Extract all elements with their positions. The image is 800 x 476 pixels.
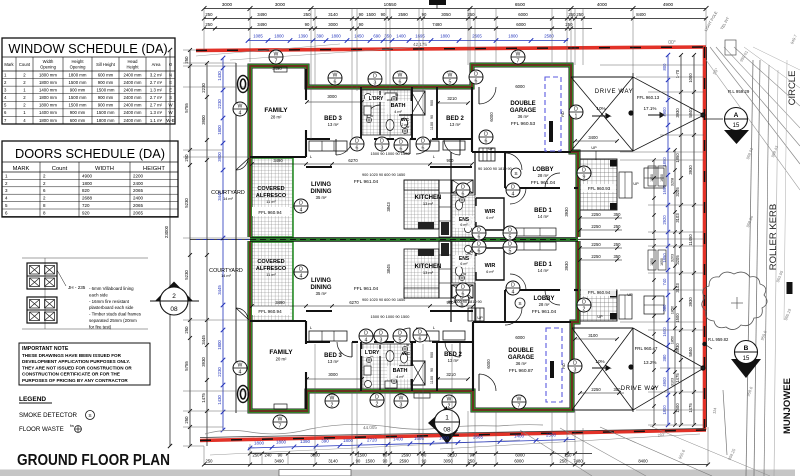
svg-text:W: W bbox=[516, 51, 521, 57]
left dim line third bbox=[201, 61, 209, 446]
bottom dim row A bbox=[248, 452, 592, 458]
room ENS unit1 bbox=[455, 216, 474, 228]
svg-text:W: W bbox=[238, 362, 243, 368]
tag porch unit2 bbox=[577, 298, 591, 312]
svg-text:L'DRY: L'DRY bbox=[369, 96, 384, 102]
room COVERED ALFRESCO unit2 bbox=[252, 306, 290, 315]
floor waste symbols unit1 bbox=[391, 96, 396, 101]
svg-text:- Timber studs dual frames: - Timber studs dual frames bbox=[89, 312, 142, 317]
left dim line second bbox=[184, 48, 192, 448]
svg-text:10%: 10% bbox=[595, 359, 604, 364]
ensuite unit1 tiles bbox=[452, 195, 475, 237]
svg-text:6: 6 bbox=[422, 145, 425, 151]
svg-text:6: 6 bbox=[399, 79, 402, 85]
courtyard gate unit2 bbox=[236, 308, 249, 320]
family north fitting unit1 bbox=[274, 67, 287, 72]
svg-text:2: 2 bbox=[583, 306, 586, 312]
svg-text:08: 08 bbox=[443, 427, 451, 434]
svg-text:20 m²: 20 m² bbox=[276, 357, 287, 362]
svg-text:1850: 1850 bbox=[650, 174, 654, 182]
svg-text:6000: 6000 bbox=[489, 112, 494, 122]
stairs unit1 lobby bbox=[479, 147, 495, 161]
svg-text:350: 350 bbox=[614, 254, 622, 259]
svg-text:2400 mm: 2400 mm bbox=[124, 72, 142, 77]
svg-text:90: 90 bbox=[470, 453, 475, 458]
svg-text:3: 3 bbox=[574, 367, 577, 373]
svg-text:D: D bbox=[574, 106, 578, 112]
svg-text:2580: 2580 bbox=[544, 34, 554, 39]
family south fitting unit2 bbox=[274, 404, 287, 409]
svg-text:10550: 10550 bbox=[384, 2, 397, 7]
svg-text:4: 4 bbox=[239, 110, 242, 116]
svg-text:W: W bbox=[238, 103, 243, 109]
party wall extension left bbox=[190, 239, 250, 241]
svg-text:1800 mm: 1800 mm bbox=[69, 72, 87, 77]
svg-text:2400: 2400 bbox=[133, 196, 144, 201]
linen cupboards corridor unit2 bbox=[309, 325, 439, 341]
svg-text:1800 mm: 1800 mm bbox=[39, 72, 57, 77]
svg-text:35 m²: 35 m² bbox=[316, 291, 327, 296]
svg-text:ALFRESCO: ALFRESCO bbox=[256, 266, 287, 272]
svg-text:6500: 6500 bbox=[515, 2, 526, 7]
door swing arcs unit1 bbox=[336, 139, 352, 155]
stairs unit2 lobby bbox=[468, 308, 484, 321]
svg-text:B: B bbox=[744, 345, 749, 352]
svg-text:7480: 7480 bbox=[432, 22, 442, 27]
svg-text:4 m²: 4 m² bbox=[396, 375, 404, 379]
svg-text:90: 90 bbox=[383, 453, 388, 458]
svg-text:2: 2 bbox=[172, 293, 176, 300]
kerb ramp black bar bbox=[787, 282, 793, 294]
svg-text:- 6mm Villaboard lining: - 6mm Villaboard lining bbox=[89, 286, 134, 291]
svg-text:FAMILY: FAMILY bbox=[264, 107, 288, 114]
svg-text:250: 250 bbox=[467, 12, 475, 17]
svg-text:9: 9 bbox=[583, 174, 586, 180]
svg-text:BATH: BATH bbox=[393, 368, 408, 374]
svg-text:36 m²: 36 m² bbox=[516, 361, 527, 366]
svg-text:2590: 2590 bbox=[398, 12, 408, 17]
robe bed1 unit2 bbox=[508, 242, 556, 250]
svg-text:Area: Area bbox=[152, 62, 162, 67]
svg-text:RD: RD bbox=[562, 363, 566, 369]
porch steps unit1 bbox=[619, 172, 632, 198]
svg-text:1400: 1400 bbox=[393, 437, 404, 442]
svg-text:6: 6 bbox=[478, 234, 481, 240]
svg-text:LIVING: LIVING bbox=[311, 182, 331, 188]
svg-text:1500 mm: 1500 mm bbox=[97, 110, 115, 115]
svg-text:1500 90 1000 90 1500: 1500 90 1000 90 1500 bbox=[371, 314, 411, 319]
svg-text:36 m²: 36 m² bbox=[518, 114, 529, 119]
svg-text:3140: 3140 bbox=[328, 459, 338, 464]
svg-text:250: 250 bbox=[614, 242, 622, 247]
svg-text:2200: 2200 bbox=[133, 173, 144, 178]
dim line bed2 unit1 bbox=[438, 102, 468, 104]
svg-text:2590: 2590 bbox=[399, 459, 409, 464]
svg-text:5230: 5230 bbox=[184, 270, 189, 280]
svg-text:E: E bbox=[169, 80, 172, 85]
dim porch unit1 bbox=[573, 135, 619, 143]
svg-text:6 m²: 6 m² bbox=[460, 223, 468, 227]
svg-text:6: 6 bbox=[462, 291, 465, 297]
svg-text:Height: Height bbox=[126, 65, 139, 70]
svg-text:3490: 3490 bbox=[274, 459, 284, 464]
svg-text:90 1600 90 1810 90: 90 1600 90 1810 90 bbox=[478, 167, 512, 171]
ensuite unit2 tiles bbox=[452, 241, 475, 283]
room DRY unit2 bbox=[361, 349, 383, 356]
svg-text:1800 mm: 1800 mm bbox=[97, 118, 115, 123]
porch unit1 tiles bbox=[580, 159, 617, 210]
svg-text:FFL 961.04: FFL 961.04 bbox=[531, 180, 556, 186]
svg-text:3208: 3208 bbox=[671, 178, 675, 186]
robe bed2 unit2 bbox=[443, 331, 465, 340]
svg-text:390: 390 bbox=[321, 439, 329, 444]
svg-text:90: 90 bbox=[430, 368, 434, 372]
svg-text:3: 3 bbox=[400, 402, 403, 408]
room BATH unit2 bbox=[387, 366, 414, 379]
svg-text:MUNJOWEE: MUNJOWEE bbox=[782, 378, 793, 434]
important note box bbox=[19, 343, 150, 385]
smoke detector unit2 bbox=[515, 298, 525, 308]
svg-text:900: 900 bbox=[430, 352, 434, 358]
svg-text:90: 90 bbox=[430, 115, 434, 119]
road diagonal lines bottom right bbox=[210, 426, 770, 476]
svg-text:350: 350 bbox=[614, 212, 622, 217]
svg-text:3930: 3930 bbox=[564, 207, 569, 217]
svg-text:D: D bbox=[418, 329, 422, 335]
svg-text:28 m²: 28 m² bbox=[539, 302, 550, 307]
svg-text:1400 mm: 1400 mm bbox=[39, 88, 57, 93]
svg-text:900 1020 90 600 90 1650: 900 1020 90 600 90 1650 bbox=[362, 173, 405, 177]
svg-text:250: 250 bbox=[614, 224, 622, 229]
svg-text:FFL 960.13: FFL 960.13 bbox=[637, 95, 660, 100]
exterior wall unit1 outline bbox=[250, 65, 578, 237]
svg-text:DOORS SCHEDULE (DA): DOORS SCHEDULE (DA) bbox=[15, 146, 165, 161]
svg-text:FFL 961.04: FFL 961.04 bbox=[532, 309, 557, 315]
svg-text:S: S bbox=[88, 413, 91, 419]
svg-text:CIRCLE: CIRCLE bbox=[787, 71, 798, 106]
svg-text:13 m²: 13 m² bbox=[448, 358, 459, 363]
site boundary red line bottom bbox=[200, 430, 706, 441]
svg-text:4: 4 bbox=[300, 273, 303, 279]
garage unit1 walls bbox=[472, 151, 571, 153]
svg-text:00°: 00° bbox=[668, 40, 676, 46]
svg-text:6000: 6000 bbox=[516, 22, 526, 27]
svg-text:2688: 2688 bbox=[82, 196, 93, 201]
svg-text:6000: 6000 bbox=[486, 359, 491, 369]
svg-text:1500 mm: 1500 mm bbox=[69, 103, 87, 108]
svg-text:FFL 961.04: FFL 961.04 bbox=[354, 179, 379, 185]
svg-text:Opening: Opening bbox=[40, 65, 57, 70]
svg-text:1650: 1650 bbox=[660, 174, 664, 182]
svg-text:900: 900 bbox=[430, 100, 434, 106]
svg-text:1500 mm: 1500 mm bbox=[97, 88, 115, 93]
doors schedule table bbox=[2, 141, 178, 217]
svg-text:5755: 5755 bbox=[184, 361, 189, 371]
sheet edge band bbox=[0, 470, 795, 476]
svg-text:2250: 2250 bbox=[591, 242, 601, 247]
svg-text:3000: 3000 bbox=[310, 453, 320, 458]
svg-text:4: 4 bbox=[300, 207, 303, 213]
svg-text:5840: 5840 bbox=[688, 347, 693, 357]
svg-text:6270: 6270 bbox=[349, 300, 359, 305]
svg-text:Width: Width bbox=[43, 59, 54, 64]
svg-text:UP: UP bbox=[477, 316, 483, 320]
right dim column blue bbox=[662, 53, 670, 427]
svg-text:R.L 959.29: R.L 959.29 bbox=[728, 89, 750, 94]
floor waste symbols unit2 bbox=[391, 378, 396, 383]
svg-text:4: 4 bbox=[239, 369, 242, 375]
marker 2/08 bubble bbox=[150, 282, 199, 316]
svg-text:6: 6 bbox=[485, 138, 488, 144]
svg-text:D: D bbox=[398, 330, 402, 336]
svg-text:800: 800 bbox=[662, 63, 667, 71]
svg-text:3930: 3930 bbox=[688, 165, 693, 175]
svg-text:2400 mm: 2400 mm bbox=[124, 95, 142, 100]
svg-text:1390: 1390 bbox=[298, 34, 308, 39]
svg-text:250: 250 bbox=[205, 22, 213, 27]
svg-text:4900: 4900 bbox=[82, 173, 93, 178]
ens fixtures unit2 bbox=[456, 246, 472, 277]
room COVERED ALFRESCO unit1 bbox=[252, 207, 290, 216]
svg-text:8400: 8400 bbox=[636, 12, 646, 17]
svg-text:3930: 3930 bbox=[564, 261, 569, 271]
party wall detail JH-235 bbox=[22, 258, 148, 329]
svg-text:1800: 1800 bbox=[331, 34, 341, 39]
svg-text:UP: UP bbox=[627, 293, 633, 297]
svg-text:2590: 2590 bbox=[401, 453, 411, 458]
svg-text:3445: 3445 bbox=[201, 335, 206, 345]
svg-text:2065: 2065 bbox=[133, 203, 144, 208]
svg-text:FFL 960.94: FFL 960.94 bbox=[258, 309, 282, 314]
svg-text:1800: 1800 bbox=[508, 34, 518, 39]
svg-text:1430: 1430 bbox=[217, 395, 222, 405]
svg-text:D: D bbox=[477, 227, 481, 233]
annotation squiggle at bottom boundary bbox=[205, 424, 543, 434]
driveway unit2 outline bbox=[572, 328, 706, 412]
svg-text:2230: 2230 bbox=[201, 83, 206, 93]
svg-text:W: W bbox=[398, 72, 403, 78]
linen cupboards corridor unit1 bbox=[309, 141, 439, 159]
svg-text:1.3 m²: 1.3 m² bbox=[150, 88, 163, 93]
svg-text:4 m²: 4 m² bbox=[394, 110, 402, 114]
dim line bed3 unit2 bbox=[307, 378, 362, 380]
tag alfresco unit2 bbox=[294, 265, 308, 279]
svg-text:1400 mm: 1400 mm bbox=[39, 110, 57, 115]
svg-text:D: D bbox=[508, 227, 512, 233]
svg-text:250: 250 bbox=[206, 459, 214, 464]
svg-text:90: 90 bbox=[383, 459, 388, 464]
svg-text:2400 mm: 2400 mm bbox=[124, 88, 142, 93]
svg-text:2400: 2400 bbox=[133, 181, 144, 186]
svg-text:WIR: WIR bbox=[485, 209, 496, 215]
svg-text:PURPOSES OF PRICING BY ANY CON: PURPOSES OF PRICING BY ANY CONTRACTOR bbox=[22, 378, 128, 383]
svg-text:2580: 2580 bbox=[546, 433, 557, 438]
svg-text:11 m²: 11 m² bbox=[266, 200, 276, 204]
svg-text:1800: 1800 bbox=[439, 436, 450, 441]
svg-text:COVERED: COVERED bbox=[257, 259, 284, 265]
svg-text:380: 380 bbox=[662, 354, 667, 362]
garage unit2 door dashed bbox=[546, 328, 562, 402]
dim line bed2 unit2 bbox=[438, 378, 468, 380]
garage unit1 door dashed bbox=[545, 77, 561, 151]
svg-text:5: 5 bbox=[449, 79, 452, 85]
svg-text:DOUBLE: DOUBLE bbox=[508, 348, 533, 354]
svg-text:3490: 3490 bbox=[275, 300, 285, 305]
right dim column black2 bbox=[688, 53, 696, 427]
window schedule table bbox=[2, 38, 175, 124]
svg-text:1.3 m²: 1.3 m² bbox=[150, 110, 163, 115]
tags core unit1 bbox=[472, 226, 486, 240]
svg-text:90: 90 bbox=[305, 22, 310, 27]
svg-text:6000: 6000 bbox=[515, 84, 525, 89]
svg-text:1800: 1800 bbox=[82, 181, 93, 186]
svg-text:250: 250 bbox=[468, 459, 476, 464]
covered alfresco unit1 hatch bbox=[251, 158, 293, 237]
svg-text:1000: 1000 bbox=[688, 73, 693, 83]
svg-text:15: 15 bbox=[743, 356, 750, 362]
svg-text:900 mm: 900 mm bbox=[98, 103, 114, 108]
svg-text:JH - 235: JH - 235 bbox=[68, 285, 86, 290]
site boundary red line top bbox=[196, 47, 706, 51]
svg-text:4000: 4000 bbox=[597, 2, 608, 7]
svg-text:13 m²: 13 m² bbox=[450, 122, 461, 127]
svg-text:740: 740 bbox=[662, 278, 667, 286]
svg-text:3845: 3845 bbox=[386, 264, 391, 274]
svg-text:CONSTRUCTION CERTIFICATE OR FO: CONSTRUCTION CERTIFICATE OR FOR THE bbox=[22, 372, 120, 377]
svg-text:W: W bbox=[517, 396, 522, 402]
door swing arcs unit2 bbox=[337, 342, 352, 357]
marker A/15 section bubble bbox=[704, 108, 749, 145]
svg-text:14 m²: 14 m² bbox=[223, 197, 233, 201]
top dimension row 3 bbox=[202, 22, 592, 30]
bottom dim extension lines bbox=[204, 344, 708, 464]
svg-text:14 m²: 14 m² bbox=[221, 274, 231, 278]
top dim extension lines bbox=[204, 9, 706, 139]
marker 1/08 bubble bbox=[428, 406, 460, 444]
svg-text:2400 mm: 2400 mm bbox=[124, 110, 142, 115]
svg-text:ALFRESCO: ALFRESCO bbox=[256, 193, 287, 199]
svg-text:250: 250 bbox=[253, 453, 261, 458]
tags bottom wall unit2 bbox=[273, 415, 287, 429]
svg-text:SMOKE DETECTOR: SMOKE DETECTOR bbox=[19, 412, 78, 419]
right dim line extra A bbox=[652, 158, 655, 426]
svg-text:UP: UP bbox=[633, 182, 639, 186]
svg-text:W: W bbox=[399, 395, 404, 401]
svg-text:2400 mm: 2400 mm bbox=[124, 103, 142, 108]
right dim extension lines bbox=[580, 65, 704, 425]
svg-text:L'DRY: L'DRY bbox=[365, 350, 380, 356]
svg-text:D: D bbox=[582, 299, 586, 305]
kerb line short bottom bbox=[723, 390, 727, 455]
tags core unit2 bbox=[472, 240, 486, 254]
svg-text:4900: 4900 bbox=[663, 2, 674, 7]
bottom dim row B bbox=[202, 459, 710, 467]
svg-text:2250: 2250 bbox=[591, 224, 601, 229]
svg-text:11 m²: 11 m² bbox=[266, 273, 276, 277]
svg-text:W: W bbox=[333, 72, 338, 78]
tag alfresco unit1 bbox=[294, 199, 308, 213]
svg-text:13 m²: 13 m² bbox=[423, 270, 434, 275]
svg-text:A: A bbox=[734, 112, 739, 119]
top dimension row 1 bbox=[202, 0, 709, 11]
dim 2250 row near bottom garage bbox=[578, 387, 624, 395]
svg-text:each side: each side bbox=[89, 292, 108, 297]
svg-text:900 mm: 900 mm bbox=[98, 95, 114, 100]
svg-text:90: 90 bbox=[422, 12, 427, 17]
svg-text:DEVELOPMENT APPLICATION PURPOS: DEVELOPMENT APPLICATION PURPOSES ONLY. bbox=[22, 359, 130, 364]
svg-text:LEGEND: LEGEND bbox=[19, 396, 46, 403]
svg-text:7: 7 bbox=[275, 58, 278, 64]
svg-text:1800 mm: 1800 mm bbox=[39, 95, 57, 100]
svg-text:1800: 1800 bbox=[217, 340, 222, 350]
svg-text:FFL 961.04: FFL 961.04 bbox=[354, 286, 379, 292]
svg-text:90 1600 90 1810 90: 90 1600 90 1810 90 bbox=[448, 300, 482, 304]
svg-text:W: W bbox=[330, 395, 335, 401]
svg-text:42.175: 42.175 bbox=[413, 42, 427, 47]
tag lobby door unit2 bbox=[506, 281, 520, 295]
bath fixtures unit2 bbox=[364, 351, 408, 389]
svg-text:Sill Height: Sill Height bbox=[96, 62, 116, 67]
svg-text:THESE DRAWINGS HAVE BEEN ISSUE: THESE DRAWINGS HAVE BEEN ISSUED FOR bbox=[22, 353, 122, 358]
svg-text:WINDOW SCHEDULE (DA): WINDOW SCHEDULE (DA) bbox=[8, 41, 167, 56]
svg-text:6 m²: 6 m² bbox=[486, 216, 494, 220]
svg-text:1500: 1500 bbox=[365, 459, 375, 464]
svg-text:690: 690 bbox=[373, 34, 381, 39]
svg-text:90: 90 bbox=[359, 12, 364, 17]
left dim line blue courtyard bbox=[217, 56, 225, 433]
svg-text:D: D bbox=[421, 138, 425, 144]
svg-text:2: 2 bbox=[376, 401, 379, 407]
svg-text:600 mm: 600 mm bbox=[70, 118, 86, 123]
svg-text:1: 1 bbox=[445, 415, 449, 422]
right dim column black1 bbox=[675, 53, 683, 427]
ens fixtures unit1 bbox=[456, 200, 472, 233]
svg-text:7: 7 bbox=[518, 403, 521, 409]
right step dim boxes bbox=[648, 166, 656, 186]
dim line bed3 unit1 bbox=[307, 101, 362, 103]
svg-text:THEY ARE NOT ISSUED FOR CONSTR: THEY ARE NOT ISSUED FOR CONSTRUCTION OR bbox=[22, 365, 132, 370]
svg-text:1800: 1800 bbox=[276, 440, 287, 445]
svg-text:D: D bbox=[299, 266, 303, 272]
svg-text:3210: 3210 bbox=[447, 453, 457, 458]
svg-text:1800 mm: 1800 mm bbox=[39, 118, 57, 123]
svg-text:35 m²: 35 m² bbox=[316, 195, 327, 200]
svg-text:IMPORTANT NOTE: IMPORTANT NOTE bbox=[22, 346, 69, 352]
room DRY unit1 bbox=[365, 95, 387, 102]
svg-text:1800 mm: 1800 mm bbox=[39, 80, 57, 85]
svg-text:R.L 959.82: R.L 959.82 bbox=[708, 337, 729, 342]
tags corridor unit2 bbox=[359, 329, 373, 343]
svg-text:3.2 m²: 3.2 m² bbox=[150, 72, 163, 77]
svg-text:3000: 3000 bbox=[328, 22, 338, 27]
svg-text:2 m²: 2 m² bbox=[401, 123, 409, 127]
party wall between units bbox=[250, 238, 578, 242]
svg-text:250: 250 bbox=[205, 12, 213, 17]
svg-text:D: D bbox=[511, 282, 515, 288]
svg-text:D: D bbox=[375, 394, 379, 400]
porch posts unit2 bbox=[610, 291, 617, 298]
svg-text:10%: 10% bbox=[596, 106, 605, 111]
tags west wall unit1 bbox=[233, 102, 247, 116]
tree symbol bbox=[702, 272, 767, 329]
svg-text:1800: 1800 bbox=[274, 34, 284, 39]
svg-text:1695: 1695 bbox=[415, 34, 425, 39]
svg-text:13 m²: 13 m² bbox=[328, 359, 339, 364]
tag driveway unit1 bbox=[569, 105, 583, 119]
svg-text:S: S bbox=[169, 95, 172, 100]
svg-text:250: 250 bbox=[565, 453, 573, 458]
svg-text:1800: 1800 bbox=[662, 405, 667, 415]
